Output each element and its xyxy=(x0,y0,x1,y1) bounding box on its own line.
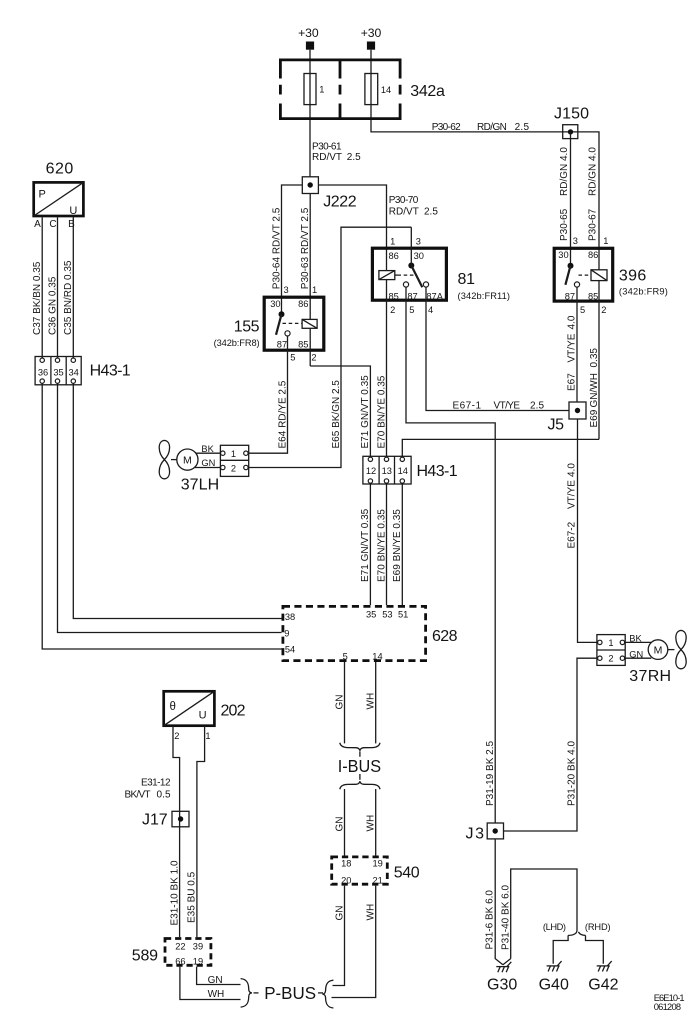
svg-text:E67-2: E67-2 xyxy=(567,521,578,548)
svg-text:540: 540 xyxy=(394,864,420,881)
wire E67-2 VT/YE J5 to fan 37RH pin 1 xyxy=(578,419,599,642)
wire P31-19 BK relay 81 pin 5 to junction J3 xyxy=(406,287,495,823)
wire H43-1 pin 36 to ECU 628 pin 54 xyxy=(42,381,281,649)
svg-text:30: 30 xyxy=(558,250,568,260)
svg-text:86: 86 xyxy=(298,299,308,309)
svg-text:66: 66 xyxy=(175,956,185,966)
module 540 (dashed box) xyxy=(332,857,420,886)
svg-text:5: 5 xyxy=(580,305,585,315)
connector H43-1 pins 36 35 34 xyxy=(35,357,131,385)
svg-text:G40: G40 xyxy=(539,977,569,994)
svg-text:VT/YE: VT/YE xyxy=(494,400,521,411)
svg-text:87: 87 xyxy=(277,339,287,349)
drawing number E6E10-1 061208 xyxy=(654,993,685,1012)
svg-text:C37 BK/BN 0.35: C37 BK/BN 0.35 xyxy=(32,261,43,335)
svg-text:E69 BN/YE 0.35: E69 BN/YE 0.35 xyxy=(392,509,403,582)
svg-text:35: 35 xyxy=(366,609,376,619)
svg-text:H43-1: H43-1 xyxy=(417,463,458,480)
svg-text:202: 202 xyxy=(221,702,246,719)
svg-text:0.35: 0.35 xyxy=(589,348,600,368)
svg-text:E31-10 BK 1.0: E31-10 BK 1.0 xyxy=(169,860,180,925)
svg-text:2: 2 xyxy=(311,353,316,363)
wire H43-1 pin 35 to ECU 628 pin 9 xyxy=(58,381,282,632)
relay 155 (342b:FR8) xyxy=(214,285,324,363)
fuse 14 xyxy=(365,74,391,105)
relay 396 (342b:FR9) xyxy=(554,236,668,315)
svg-text:2.5: 2.5 xyxy=(347,152,361,163)
wire from +30 through fuse 14 to J150 and relay 396 pin 1 xyxy=(371,50,599,270)
svg-text:1: 1 xyxy=(603,236,608,246)
wire 589 pin 66 WH to P-BUS xyxy=(180,967,241,1000)
svg-text:E70 BN/YE 0.35: E70 BN/YE 0.35 xyxy=(376,509,387,582)
wire P31-6 BK J3 to ground G30 xyxy=(495,839,503,965)
wire P31-40 BK to ground G30 xyxy=(503,869,577,965)
svg-text:(342b:FR11): (342b:FR11) xyxy=(458,291,511,301)
svg-text:U: U xyxy=(199,709,207,721)
svg-text:21: 21 xyxy=(373,876,383,886)
wire E35 BU sensor 202 pin 1 to 589 pin 39 xyxy=(197,726,205,937)
wire WH ECU 628 pin 14 to I-BUS xyxy=(375,662,377,743)
svg-text:86: 86 xyxy=(588,250,598,260)
svg-text:P30-67: P30-67 xyxy=(588,208,599,241)
svg-text:14: 14 xyxy=(381,85,391,95)
svg-text:J222: J222 xyxy=(323,194,356,211)
label wire E67-1 VT/YE 2.5 xyxy=(453,400,545,411)
ECU 628 (dashed box) xyxy=(283,606,458,661)
junction J17 xyxy=(142,811,189,828)
wire GN I-BUS to 540 pin 18 xyxy=(344,789,346,856)
relay 81 switch contact 30-87A/87 xyxy=(403,263,428,288)
wire H43-1 pin 13 to ECU 628 pin 53 xyxy=(386,481,388,605)
svg-text:1: 1 xyxy=(205,731,210,741)
svg-text:E69: E69 xyxy=(589,409,600,427)
svg-text:I-BUS: I-BUS xyxy=(338,756,381,776)
svg-text:2: 2 xyxy=(231,464,236,474)
svg-text:BK: BK xyxy=(201,444,214,454)
svg-text:P31-40 BK 6.0: P31-40 BK 6.0 xyxy=(500,885,511,950)
wire WH I-BUS to 540 pin 19 xyxy=(375,789,377,856)
svg-text:P: P xyxy=(39,189,46,201)
wire H43-1 pin 34 to ECU 628 pin 38 xyxy=(73,381,281,618)
relay 396 coil 86-85 xyxy=(579,270,608,281)
svg-text:87: 87 xyxy=(565,291,575,301)
connector H43-1 pins 12 13 14 xyxy=(363,456,458,484)
wire relay 81 coil to pin 2 (E70) xyxy=(386,280,388,460)
wire C37 BK/BN from 620 pin A xyxy=(41,217,43,360)
svg-text:C36 GN 0.35: C36 GN 0.35 xyxy=(47,276,58,335)
svg-text:4.0: 4.0 xyxy=(567,315,578,329)
svg-text:39: 39 xyxy=(193,942,203,952)
wire to ground G42 (RHD) xyxy=(586,935,604,963)
wire P30-61 RD/VT feed from +30 through fuse 1 to J222 xyxy=(309,50,311,177)
fuse box 342a xyxy=(279,59,445,121)
dash xyxy=(318,992,323,994)
wire E69 relay 396 pin 2 to H43-1 pin 14 xyxy=(402,439,599,459)
wire E65 segment into relay 81 pin 3 xyxy=(410,227,412,265)
wire WH 540 pin 21 to P-BUS xyxy=(332,886,376,998)
svg-text:(342b:FR9): (342b:FR9) xyxy=(619,287,668,297)
battery +30 terminal 2 xyxy=(361,26,382,50)
svg-text:P31-19 BK 2.5: P31-19 BK 2.5 xyxy=(485,741,496,806)
svg-text:A: A xyxy=(34,219,41,230)
svg-text:J3: J3 xyxy=(466,826,485,843)
wire relay 396 coil to pin 2 (E69) xyxy=(598,281,600,440)
connector of fan 37RH pins 1 2 xyxy=(597,635,625,666)
svg-text:WH: WH xyxy=(366,815,377,832)
svg-text:P30-62: P30-62 xyxy=(432,122,461,133)
svg-text:GN: GN xyxy=(629,649,643,659)
svg-text:P30-64 RD/VT 2.5: P30-64 RD/VT 2.5 xyxy=(271,207,282,289)
svg-text:4: 4 xyxy=(428,305,433,315)
svg-text:2.5: 2.5 xyxy=(424,207,438,218)
dash xyxy=(254,992,259,994)
fan motor 37LH xyxy=(159,440,220,493)
fan motor 37RH xyxy=(622,630,686,684)
I-BUS dashed link lower xyxy=(359,774,361,780)
svg-text:81: 81 xyxy=(458,271,476,288)
wire E64 RD/YE relay 155 pin 5 to fan 37LH pin 1 xyxy=(246,336,288,453)
fuse 1 xyxy=(304,74,324,105)
svg-text:30: 30 xyxy=(270,299,280,309)
svg-text:9: 9 xyxy=(284,628,289,638)
svg-text:WH: WH xyxy=(366,904,377,921)
junction J150 xyxy=(554,106,589,139)
svg-text:22: 22 xyxy=(175,942,185,952)
svg-text:E70 BN/YE 0.35: E70 BN/YE 0.35 xyxy=(376,375,387,448)
svg-text:GN: GN xyxy=(334,817,345,832)
svg-text:37RH: 37RH xyxy=(629,668,671,685)
svg-text:E31-12: E31-12 xyxy=(141,777,171,788)
svg-text:(RHD): (RHD) xyxy=(585,922,611,932)
wire P30-63 J222 down to relay 155 pin 1 xyxy=(309,194,311,320)
temperature sensor 202 xyxy=(164,691,246,741)
svg-text:J5: J5 xyxy=(548,417,565,434)
relay 81 coil 86-85 xyxy=(379,271,415,280)
label wire P30-70 RD/VT 2.5 xyxy=(389,195,439,218)
svg-text:RD/GN 4.0: RD/GN 4.0 xyxy=(559,147,570,196)
svg-text:GN: GN xyxy=(208,975,223,986)
svg-text:E65 BK/GN 2.5: E65 BK/GN 2.5 xyxy=(331,380,342,449)
svg-text:35: 35 xyxy=(53,367,63,377)
P-BUS right brace xyxy=(322,980,333,1008)
svg-text:θ: θ xyxy=(170,701,176,713)
ground G30 xyxy=(487,962,517,994)
wire E71 GN/VT relay 155 pin 2 to H43-1 pin 12 xyxy=(310,366,370,459)
svg-text:3: 3 xyxy=(573,236,578,246)
svg-text:85: 85 xyxy=(588,291,598,301)
pressure sensor 620 xyxy=(34,160,84,217)
junction J222 xyxy=(302,177,356,211)
svg-text:1: 1 xyxy=(231,449,236,459)
module 589 (dashed box) xyxy=(132,939,211,967)
svg-text:12: 12 xyxy=(366,466,376,476)
svg-text:5: 5 xyxy=(343,651,348,661)
svg-text:5: 5 xyxy=(290,353,295,363)
relay 155 switch contact 30-87 xyxy=(276,311,290,336)
svg-text:19: 19 xyxy=(193,956,203,966)
svg-text:U: U xyxy=(69,205,77,217)
svg-text:BK: BK xyxy=(629,633,642,643)
svg-text:36: 36 xyxy=(38,367,48,377)
svg-text:20: 20 xyxy=(341,876,351,886)
svg-text:14: 14 xyxy=(398,466,408,476)
svg-text:J150: J150 xyxy=(554,106,589,123)
svg-text:4.0: 4.0 xyxy=(567,463,578,477)
label wire E31-12 BK/VT 0.5 xyxy=(125,777,171,800)
svg-text:E71 GN/VT 0.35: E71 GN/VT 0.35 xyxy=(360,375,371,449)
alternative selector LHD/RHD xyxy=(543,922,611,935)
svg-text:M: M xyxy=(183,454,192,466)
svg-text:E71 GN/VT 0.35: E71 GN/VT 0.35 xyxy=(360,508,371,582)
P-BUS left brace xyxy=(241,979,252,1008)
svg-text:3: 3 xyxy=(284,285,289,295)
svg-text:589: 589 xyxy=(132,948,158,965)
wire relay 155 coil to pin 2 xyxy=(309,328,311,366)
svg-text:P30-61: P30-61 xyxy=(312,142,342,153)
svg-text:GN: GN xyxy=(201,458,215,468)
svg-text:G42: G42 xyxy=(588,977,618,994)
I-BUS brace upper xyxy=(340,743,380,751)
svg-text:RD/VT: RD/VT xyxy=(389,207,419,218)
wire E31-10 BK sensor 202 pin 2 to 589 pin 22 xyxy=(173,726,180,937)
svg-text:2: 2 xyxy=(174,731,179,741)
svg-text:1: 1 xyxy=(390,236,395,246)
svg-text:54: 54 xyxy=(285,645,295,655)
connector of fan 37LH pins 1 2 xyxy=(220,445,248,476)
junction J3 xyxy=(466,823,504,843)
svg-text:30: 30 xyxy=(414,251,424,261)
svg-text:1: 1 xyxy=(312,285,317,295)
svg-text:P31-6 BK 6.0: P31-6 BK 6.0 xyxy=(485,890,496,950)
svg-text:B: B xyxy=(68,219,75,230)
svg-text:53: 53 xyxy=(382,609,392,619)
svg-text:GN/WH: GN/WH xyxy=(589,373,600,407)
wire H43-1 pin 14 to ECU 628 pin 51 xyxy=(401,481,403,605)
svg-text:87A: 87A xyxy=(426,292,443,302)
svg-text:5: 5 xyxy=(409,305,414,315)
svg-text:C35 BN/RD 0.35: C35 BN/RD 0.35 xyxy=(63,260,74,335)
svg-text:86: 86 xyxy=(389,251,399,261)
svg-text:WH: WH xyxy=(208,989,225,1000)
svg-text:19: 19 xyxy=(373,859,383,869)
wire P30-64 branch J222 to relay 155 pin 3 xyxy=(282,185,303,314)
wire 589 pin 19 GN to P-BUS xyxy=(197,967,241,985)
svg-text:BK/VT: BK/VT xyxy=(125,790,151,801)
svg-text:85: 85 xyxy=(389,292,399,302)
svg-text:396: 396 xyxy=(619,268,646,285)
relay 396 switch contact 30-87 xyxy=(565,263,579,287)
svg-text:P30-65: P30-65 xyxy=(559,208,570,241)
I-BUS dashed link xyxy=(359,751,361,757)
svg-text:(342b:FR8): (342b:FR8) xyxy=(214,338,260,348)
svg-text:342a: 342a xyxy=(410,83,445,100)
svg-text:H43-1: H43-1 xyxy=(90,362,131,379)
wire H43-1 pin 12 to ECU 628 pin 35 xyxy=(369,481,371,605)
I-BUS brace lower xyxy=(340,781,380,789)
wire C36 GN from 620 pin C xyxy=(57,217,59,360)
svg-text:+30: +30 xyxy=(361,26,382,40)
svg-text:2.5: 2.5 xyxy=(515,122,530,133)
svg-text:G30: G30 xyxy=(487,977,517,994)
svg-text:GN: GN xyxy=(334,695,345,710)
svg-text:GN: GN xyxy=(334,906,345,921)
svg-text:061208: 061208 xyxy=(654,1002,681,1012)
relay 81 (342b:FR11) xyxy=(372,236,510,315)
svg-text:(LHD): (LHD) xyxy=(543,922,566,932)
svg-text:18: 18 xyxy=(341,859,351,869)
wire C35 BN/RD from 620 pin B xyxy=(72,217,74,360)
svg-text:VT/YE: VT/YE xyxy=(567,333,578,362)
wire P31-20 BK fan 37RH pin 2 to junction J3 xyxy=(504,658,599,831)
battery +30 terminal 1 xyxy=(298,26,319,50)
svg-text:3: 3 xyxy=(416,236,421,246)
svg-text:37LH: 37LH xyxy=(181,476,220,493)
svg-text:P31-20 BK 4.0: P31-20 BK 4.0 xyxy=(566,741,577,806)
wire P30-70 branch J222 to relay 81 pin 1 xyxy=(318,185,386,271)
svg-text:E67: E67 xyxy=(567,373,578,391)
label wire P30-61 RD/VT 2.5 xyxy=(312,142,361,163)
svg-text:34: 34 xyxy=(69,367,79,377)
svg-text:P-BUS: P-BUS xyxy=(264,983,316,1003)
svg-text:620: 620 xyxy=(46,160,74,177)
svg-text:51: 51 xyxy=(398,609,408,619)
wire E67-1 VT/YE relay 81 pin 4 to junction J5 xyxy=(426,287,569,410)
svg-text:2.5: 2.5 xyxy=(530,400,544,411)
label wire P30-62 RD/GN 2.5 xyxy=(432,122,530,133)
svg-text:C: C xyxy=(49,219,56,230)
svg-text:87: 87 xyxy=(407,292,417,302)
svg-text:628: 628 xyxy=(432,628,458,645)
svg-text:2: 2 xyxy=(608,654,613,664)
svg-text:J17: J17 xyxy=(142,812,168,829)
svg-text:P30-63 RD/VT 2.5: P30-63 RD/VT 2.5 xyxy=(300,207,311,289)
wire P30-65 J150 down to relay 396 pin 3 xyxy=(570,132,572,266)
wire GN ECU 628 pin 5 to I-BUS xyxy=(344,662,346,743)
ground G40 xyxy=(539,961,569,993)
relay 155 coil 86-85 xyxy=(283,319,318,328)
svg-text:85: 85 xyxy=(298,339,308,349)
svg-text:1: 1 xyxy=(608,638,613,648)
svg-text:E64 RD/YE 2.5: E64 RD/YE 2.5 xyxy=(277,380,288,448)
wire E67 VT/YE relay 396 pin 5 to J5 xyxy=(576,287,578,402)
svg-text:P30-70: P30-70 xyxy=(389,195,419,206)
svg-text:RD/GN 4.0: RD/GN 4.0 xyxy=(588,147,599,196)
svg-text:RD/GN: RD/GN xyxy=(477,122,507,133)
svg-text:14: 14 xyxy=(372,651,382,661)
svg-text:2: 2 xyxy=(390,305,395,315)
svg-text:WH: WH xyxy=(366,693,377,710)
svg-text:RD/VT: RD/VT xyxy=(312,152,342,163)
svg-text:155: 155 xyxy=(234,319,260,336)
wire E65 BK/GN fan 37LH pin 2 to relay 81 pin 3 xyxy=(246,227,411,467)
svg-text:M: M xyxy=(654,644,663,656)
svg-text:+30: +30 xyxy=(298,26,319,40)
wire GN 540 pin 20 to P-BUS xyxy=(333,886,345,986)
junction J5 xyxy=(548,402,587,434)
svg-text:2: 2 xyxy=(601,305,606,315)
svg-text:E35 BU 0.5: E35 BU 0.5 xyxy=(187,871,198,923)
svg-text:13: 13 xyxy=(382,466,392,476)
svg-text:VT/YE: VT/YE xyxy=(567,480,578,509)
wire to ground G40 (LHD) xyxy=(553,935,568,963)
svg-text:0.5: 0.5 xyxy=(157,790,171,801)
svg-text:38: 38 xyxy=(285,612,295,622)
svg-text:1: 1 xyxy=(319,85,324,95)
svg-text:E67-1: E67-1 xyxy=(453,400,482,411)
ground G42 xyxy=(588,961,618,993)
